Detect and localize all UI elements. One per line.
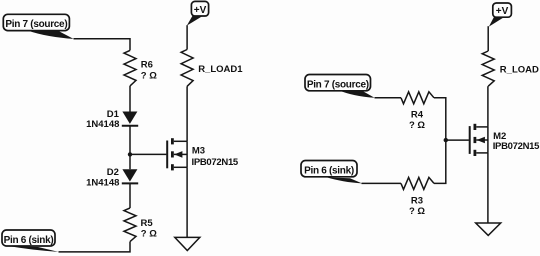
- wire R5 to Pin6: [59, 242, 131, 252]
- wire D1 to D2 through gate node: [129, 126, 131, 169]
- wire R3 to gate node: [434, 140, 446, 183]
- svg-text:1N4148: 1N4148: [86, 119, 119, 130]
- power +V left: [187, 1, 209, 25]
- wire M3 source to ground: [186, 167, 188, 237]
- wire gate M2: [446, 139, 469, 141]
- wire Pin7 to R4: [375, 97, 402, 99]
- ground left: [175, 237, 200, 250]
- svg-text:Pin 6 (sink): Pin 6 (sink): [304, 165, 354, 176]
- power +V right: [489, 3, 512, 27]
- svg-text:R_LOAD1: R_LOAD1: [198, 64, 243, 75]
- svg-text:+V: +V: [194, 5, 207, 16]
- node junction left gate: [128, 152, 132, 156]
- svg-text:R4: R4: [411, 110, 424, 121]
- resistor R_LOAD: [482, 51, 539, 86]
- svg-text:R3: R3: [411, 195, 423, 206]
- wire Pin7 to R6: [74, 39, 131, 51]
- callout Pin 7 (source) left: [3, 14, 73, 39]
- callout Pin 7 (source) right: [305, 75, 375, 98]
- svg-text:R6: R6: [141, 60, 153, 71]
- svg-text:Pin 7 (source): Pin 7 (source): [307, 79, 369, 90]
- resistor R3: [401, 177, 434, 217]
- wire R_LOAD to +V right: [487, 26, 489, 51]
- svg-text:Pin 6 (sink): Pin 6 (sink): [4, 235, 54, 246]
- wire M2 drain to R_LOAD: [487, 86, 489, 127]
- wire Pin6 to R3: [362, 182, 402, 184]
- wire D2 to R5: [129, 183, 131, 208]
- svg-text:+V: +V: [496, 6, 509, 17]
- node junction right gate: [444, 138, 448, 142]
- callout Pin 6 (sink) left: [2, 230, 59, 252]
- svg-text:Pin 7 (source): Pin 7 (source): [5, 19, 67, 30]
- svg-text:? Ω: ? Ω: [409, 206, 425, 217]
- svg-text:R5: R5: [141, 218, 154, 229]
- svg-text:M3: M3: [192, 146, 205, 157]
- callout Pin 6 (sink) right: [301, 161, 362, 184]
- resistor R6: [124, 50, 157, 86]
- diode D1 1N4148: [86, 109, 138, 130]
- ground right: [476, 223, 501, 235]
- svg-text:? Ω: ? Ω: [141, 229, 157, 240]
- wire R6 to D1: [129, 86, 131, 112]
- wire M3 drain to R_LOAD1: [186, 86, 188, 141]
- transistor M3 IPB072N15: [167, 138, 239, 170]
- wire M2 source to ground: [487, 153, 489, 223]
- svg-text:? Ω: ? Ω: [141, 71, 157, 82]
- diode D2 1N4148: [86, 167, 138, 188]
- svg-text:1N4148: 1N4148: [86, 178, 119, 189]
- svg-text:? Ω: ? Ω: [409, 120, 425, 131]
- svg-text:IPB072N15: IPB072N15: [493, 141, 540, 152]
- svg-text:IPB072N15: IPB072N15: [192, 157, 239, 168]
- resistor R_LOAD1: [181, 50, 243, 87]
- wire gate M3: [130, 153, 166, 155]
- svg-text:R_LOAD: R_LOAD: [500, 65, 539, 76]
- wire R4 to gate node: [434, 98, 446, 140]
- resistor R4: [401, 92, 434, 131]
- transistor M2 IPB072N15: [470, 124, 540, 156]
- resistor R5: [124, 208, 157, 242]
- wire R_LOAD1 to +V left: [186, 25, 188, 49]
